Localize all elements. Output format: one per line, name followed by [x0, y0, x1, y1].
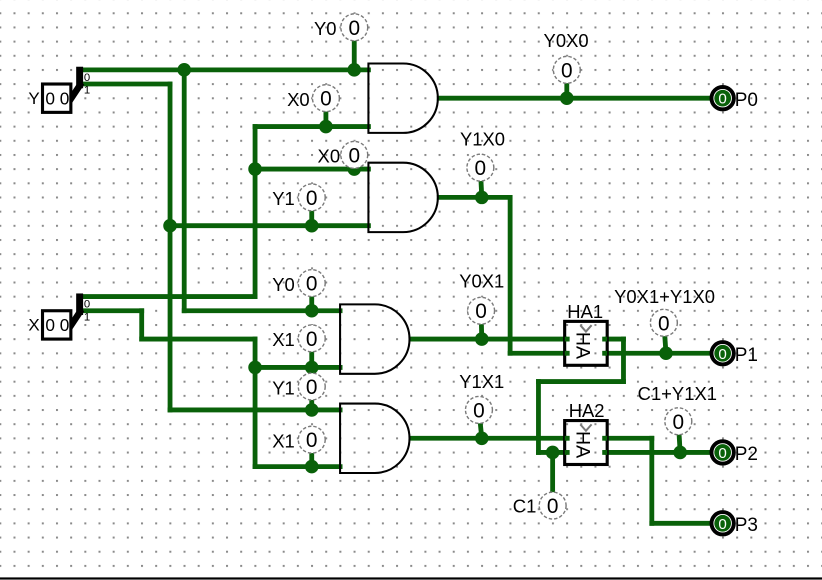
- svg-text:X: X: [28, 316, 39, 335]
- svg-text:HA2: HA2: [569, 400, 605, 421]
- svg-text:0: 0: [718, 445, 726, 462]
- svg-text:0 0: 0 0: [45, 88, 69, 108]
- svg-text:X0: X0: [318, 146, 341, 167]
- svg-text:0: 0: [348, 17, 360, 40]
- svg-text:0: 0: [475, 157, 487, 180]
- svg-text:1: 1: [84, 85, 90, 97]
- svg-text:Y0X0: Y0X0: [544, 30, 589, 51]
- svg-text:0: 0: [718, 91, 726, 108]
- svg-text:0: 0: [306, 376, 318, 399]
- svg-text:P2: P2: [735, 444, 758, 465]
- svg-text:0: 0: [718, 346, 726, 363]
- svg-text:HA1: HA1: [567, 301, 603, 322]
- svg-text:Y0X1+Y1X0: Y0X1+Y1X0: [614, 286, 715, 307]
- svg-text:Y0X1: Y0X1: [459, 270, 504, 291]
- svg-text:0: 0: [718, 516, 726, 533]
- svg-text:0: 0: [673, 411, 685, 434]
- svg-text:C1: C1: [513, 496, 537, 517]
- svg-text:0: 0: [306, 187, 318, 210]
- svg-text:Y1X0: Y1X0: [460, 129, 505, 150]
- svg-text:0: 0: [306, 429, 318, 452]
- svg-text:0: 0: [658, 312, 670, 335]
- svg-text:0 0: 0 0: [45, 315, 69, 335]
- svg-text:X1: X1: [272, 329, 295, 350]
- svg-text:Y: Y: [28, 89, 39, 108]
- svg-text:P0: P0: [735, 90, 758, 111]
- svg-text:0: 0: [547, 495, 559, 518]
- svg-text:Y1: Y1: [272, 377, 295, 398]
- svg-text:0: 0: [473, 399, 485, 422]
- svg-text:X1: X1: [272, 430, 295, 451]
- svg-text:0: 0: [84, 299, 90, 311]
- svg-text:0: 0: [348, 144, 360, 167]
- svg-text:0: 0: [84, 72, 90, 84]
- svg-text:0: 0: [475, 300, 487, 323]
- svg-text:P3: P3: [735, 515, 758, 536]
- svg-text:Y1: Y1: [272, 188, 295, 209]
- svg-text:Y0: Y0: [314, 18, 337, 39]
- svg-text:HA: HA: [571, 332, 593, 359]
- svg-text:0: 0: [306, 328, 318, 351]
- svg-text:Y0: Y0: [272, 274, 295, 295]
- svg-text:0: 0: [561, 59, 573, 82]
- svg-text:0: 0: [320, 88, 332, 111]
- svg-text:1: 1: [84, 311, 90, 323]
- svg-text:P1: P1: [735, 345, 758, 366]
- svg-text:0: 0: [306, 273, 318, 296]
- svg-text:HA: HA: [571, 431, 593, 458]
- svg-text:C1+Y1X1: C1+Y1X1: [638, 383, 717, 404]
- svg-text:Y1X1: Y1X1: [459, 371, 504, 392]
- svg-text:X0: X0: [287, 89, 310, 110]
